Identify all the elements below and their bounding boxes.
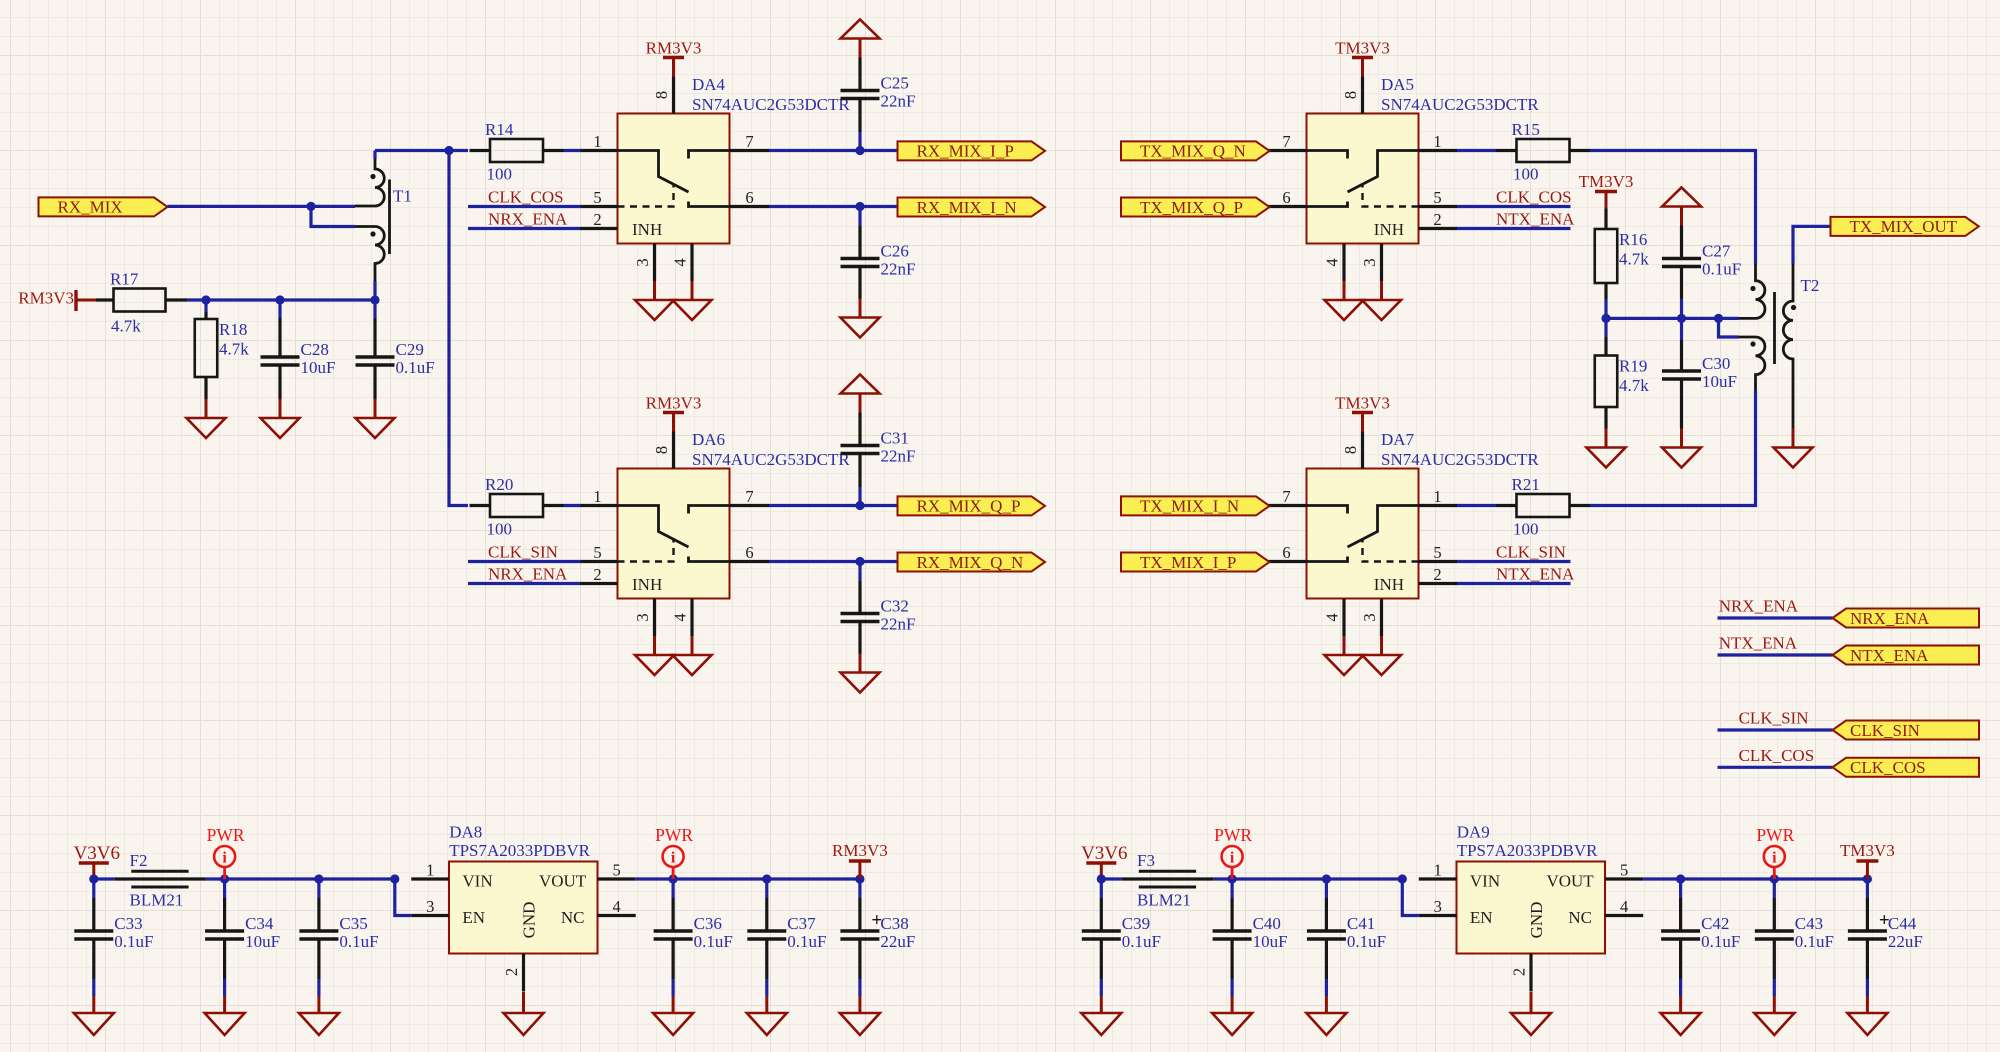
wire [1100,879,1103,898]
svg-text:C33: C33 [114,914,142,933]
wire [769,149,898,152]
svg-text:10uF: 10uF [1253,932,1288,951]
svg-text:C35: C35 [339,914,367,933]
ground [673,636,712,675]
svg-text:RX_MIX_Q_N: RX_MIX_Q_N [917,553,1024,572]
wire [317,979,320,996]
power RM3V3 [18,289,95,312]
wire [1590,151,1756,264]
svg-text:DA4: DA4 [692,75,726,94]
svg-text:5: 5 [1433,543,1441,562]
wire [395,879,412,916]
power flag PWR [207,825,245,879]
svg-text:3: 3 [1360,258,1379,266]
svg-text:PWR: PWR [1214,825,1252,845]
power flag PWR [1214,825,1252,879]
port NRX_ENA [1833,609,1980,628]
svg-text:NRX_ENA: NRX_ENA [1719,597,1799,616]
wire [468,227,581,230]
svg-text:7: 7 [745,132,753,151]
power arrow [841,375,880,413]
wire [1718,728,1833,731]
wire [636,877,860,880]
svg-text:SN74AUC2G53DCTR: SN74AUC2G53DCTR [1381,95,1539,114]
svg-text:4.7k: 4.7k [111,317,141,336]
junction [314,874,323,883]
ground [747,996,787,1035]
power TM3V3 [1335,394,1390,432]
wire [449,149,468,152]
port RX_MIX_Q_N [898,553,1046,572]
port TX_MIX_Q_N [1121,141,1270,160]
svg-text:RX_MIX_I_P: RX_MIX_I_P [917,142,1014,161]
svg-text:NC: NC [561,908,585,927]
ground [1325,281,1364,320]
svg-text:2: 2 [1433,210,1441,229]
capacitor C36 [654,914,733,951]
ground [205,996,245,1035]
wire [1866,879,1869,898]
svg-text:3: 3 [426,897,434,916]
svg-text:0.1uF: 0.1uF [1347,932,1386,951]
svg-text:TX_MIX_Q_N: TX_MIX_Q_N [1140,142,1246,161]
wire [858,207,861,227]
svg-text:5: 5 [612,861,620,880]
junction [1714,314,1723,323]
resistor R18 [195,319,250,377]
svg-text:GND: GND [1527,902,1546,939]
wire [564,149,581,152]
wire [187,298,206,301]
junction [1228,874,1237,883]
svg-text:7: 7 [1282,132,1290,151]
svg-text:i: i [222,850,227,867]
svg-text:R15: R15 [1512,120,1540,139]
svg-text:C39: C39 [1122,914,1150,933]
svg-text:3: 3 [633,258,652,266]
svg-text:C26: C26 [881,242,909,261]
wire [858,879,861,898]
svg-text:0.1uF: 0.1uF [114,932,153,951]
junction [370,295,379,304]
wire [1457,560,1571,563]
junction [89,874,98,883]
resistor R19 [1595,356,1650,408]
wire [223,879,226,898]
svg-text:NRX_ENA: NRX_ENA [1850,609,1930,628]
svg-text:0.1uF: 0.1uF [694,932,733,951]
svg-text:INH: INH [1374,575,1404,594]
svg-text:1: 1 [1434,861,1442,880]
ground [635,281,674,320]
capacitor C26 [841,242,916,279]
svg-text:C34: C34 [245,914,274,933]
junction [220,874,229,883]
svg-text:C29: C29 [396,340,424,359]
svg-text:SN74AUC2G53DCTR: SN74AUC2G53DCTR [692,95,850,114]
capacitor C35 [299,914,378,951]
svg-text:1: 1 [1433,132,1441,151]
svg-text:PWR: PWR [207,825,245,845]
svg-text:0.1uF: 0.1uF [339,932,378,951]
svg-text:VOUT: VOUT [1546,872,1594,891]
svg-text:C28: C28 [301,340,329,359]
ground [1212,996,1252,1035]
wire [1680,299,1683,318]
capacitor C27 [1662,242,1741,279]
svg-text:DA8: DA8 [449,823,482,842]
svg-text:F2: F2 [130,851,148,870]
wire [858,487,861,506]
wire [769,205,898,208]
svg-text:NTX_ENA: NTX_ENA [1719,634,1798,653]
ground [653,996,693,1035]
port TX_MIX_I_N [1121,496,1270,515]
svg-text:C25: C25 [881,74,909,93]
capacitor C43 [1755,914,1834,951]
capacitor C40 [1213,914,1288,951]
wire [671,979,674,996]
ground [841,654,880,693]
wire [375,149,449,152]
resistor R20 [470,475,564,539]
junction [1601,314,1610,323]
junction [306,202,315,211]
ground [1081,996,1121,1035]
port TX_MIX_OUT [1831,217,1979,236]
wire [1719,317,1739,320]
wire [671,879,674,898]
capacitor C32 [841,597,916,634]
power flag PWR [655,825,693,879]
ground [840,996,880,1035]
capacitor C38 [840,914,915,951]
svg-text:PWR: PWR [1756,825,1794,845]
svg-text:C32: C32 [881,597,909,616]
power TM3V3 [1579,172,1634,209]
wire [1682,317,1719,320]
ground [1587,429,1626,468]
svg-text:T2: T2 [1801,276,1820,295]
resistor R21 [1496,475,1590,539]
svg-text:C31: C31 [881,429,909,448]
svg-text:8: 8 [652,91,671,99]
regulator DA9 [1419,862,1643,992]
wire [1457,582,1571,585]
svg-text:CLK_COS: CLK_COS [1739,746,1815,765]
svg-text:EN: EN [462,908,485,927]
power arrow [1662,188,1701,226]
junction [855,874,864,883]
svg-text:F3: F3 [1137,851,1155,870]
wire [1866,979,1869,996]
capacitor C25 [841,74,916,111]
capacitor C41 [1307,914,1386,951]
ground [261,399,300,438]
ferrite bead F2 [114,851,206,910]
svg-text:BLM21: BLM21 [1137,891,1191,910]
junction [390,874,399,883]
svg-text:5: 5 [593,543,601,562]
svg-text:C40: C40 [1253,914,1281,933]
svg-text:6: 6 [745,543,753,562]
svg-text:6: 6 [1282,543,1290,562]
svg-text:TM3V3: TM3V3 [1840,841,1895,860]
wire [468,582,581,585]
svg-text:C37: C37 [787,914,816,933]
svg-text:10uF: 10uF [301,358,336,377]
svg-text:PWR: PWR [655,825,693,845]
svg-text:R21: R21 [1512,475,1540,494]
svg-text:+: + [1879,910,1890,931]
svg-text:TX_MIX_OUT: TX_MIX_OUT [1850,217,1958,236]
wire [858,979,861,996]
capacitor C42 [1661,914,1740,951]
svg-text:3: 3 [1434,897,1442,916]
wire [1606,317,1682,320]
svg-text:RM3V3: RM3V3 [18,289,74,308]
wire [1718,766,1833,769]
ground [1325,636,1364,675]
regulator DA8 [411,862,635,992]
wire [204,300,207,312]
wire [206,298,280,301]
wire [317,879,320,898]
svg-text:TM3V3: TM3V3 [1335,39,1390,58]
svg-text:DA7: DA7 [1381,430,1415,449]
junction [1676,874,1685,883]
ground [1362,636,1401,675]
wire [1680,318,1683,340]
ground [356,399,395,438]
wire [1604,299,1607,318]
ground [635,636,674,675]
svg-text:RM3V3: RM3V3 [646,39,702,58]
wire [769,560,898,563]
wire [92,979,95,996]
wire [1230,979,1233,996]
svg-text:0.1uF: 0.1uF [1122,932,1161,951]
power TM3V3 [1335,39,1390,77]
svg-text:0.1uF: 0.1uF [1701,932,1740,951]
capacitor C31 [841,429,916,466]
svg-text:7: 7 [745,487,753,506]
ground [1661,996,1701,1035]
svg-text:3: 3 [1360,613,1379,621]
port TX_MIX_Q_P [1121,198,1270,217]
junction [201,295,210,304]
capacitor C37 [747,914,826,951]
ground [1847,996,1887,1035]
port NTX_ENA [1833,646,1980,665]
svg-text:22nF: 22nF [881,260,916,279]
svg-text:RX_MIX_Q_P: RX_MIX_Q_P [917,497,1021,516]
wire [858,562,861,582]
ground [1662,429,1701,468]
svg-text:TX_MIX_I_P: TX_MIX_I_P [1140,553,1236,572]
junction [855,202,864,211]
svg-text:C41: C41 [1347,914,1375,933]
svg-text:4.7k: 4.7k [1619,250,1649,269]
junction [444,146,453,155]
svg-text:i: i [671,850,676,867]
svg-text:22uF: 22uF [1888,932,1923,951]
svg-text:2: 2 [593,210,601,229]
svg-text:8: 8 [652,446,671,454]
junction [855,501,864,510]
power RM3V3 [646,39,702,77]
svg-text:SN74AUC2G53DCTR: SN74AUC2G53DCTR [1381,450,1539,469]
ground [187,399,226,438]
svg-text:CLK_COS: CLK_COS [488,188,564,207]
svg-text:100: 100 [487,520,513,539]
svg-text:100: 100 [487,165,513,184]
ground [673,281,712,320]
svg-text:V3V6: V3V6 [74,843,120,864]
wire [373,281,376,300]
svg-text:4: 4 [1323,613,1342,621]
svg-text:C42: C42 [1701,914,1729,933]
ferrite bead F3 [1122,851,1214,910]
svg-text:1: 1 [1433,487,1441,506]
svg-text:TX_MIX_I_N: TX_MIX_I_N [1140,497,1239,516]
svg-text:i: i [1230,850,1235,867]
analog switch DA6 [580,432,769,637]
port RX_MIX [39,197,168,216]
svg-text:VIN: VIN [462,872,492,891]
svg-text:2: 2 [502,968,521,976]
svg-text:C44: C44 [1888,914,1917,933]
ground [1306,996,1346,1035]
svg-text:CLK_SIN: CLK_SIN [1850,721,1920,740]
junction [669,874,678,883]
wire [223,979,226,996]
wire [311,206,355,226]
svg-text:2: 2 [593,565,601,584]
svg-text:0.1uF: 0.1uF [396,358,435,377]
svg-text:1: 1 [593,132,601,151]
svg-text:22uF: 22uF [880,932,915,951]
svg-text:TM3V3: TM3V3 [1579,172,1634,191]
svg-text:4: 4 [1323,258,1342,266]
svg-text:R20: R20 [485,475,513,494]
junction [1677,314,1686,323]
wire [858,132,861,151]
svg-text:SN74AUC2G53DCTR: SN74AUC2G53DCTR [692,450,850,469]
wire [1773,979,1776,996]
resistor R17 [110,270,187,336]
svg-text:EN: EN [1470,908,1493,927]
wire [1457,227,1571,230]
power V3V6 [74,843,120,879]
power flag PWR [1756,825,1794,879]
svg-text:NC: NC [1568,908,1592,927]
svg-text:4: 4 [612,897,620,916]
port RX_MIX_Q_P [898,496,1046,515]
svg-text:RX_MIX_I_N: RX_MIX_I_N [917,198,1017,217]
svg-text:8: 8 [1341,446,1360,454]
transformer T2 [1739,263,1820,429]
wire [1325,879,1328,898]
wire [278,300,281,318]
svg-text:RX_MIX: RX_MIX [58,198,123,217]
svg-text:5: 5 [1620,861,1628,880]
ground [1511,992,1551,1035]
junction [1863,874,1872,883]
svg-text:i: i [1772,850,1777,867]
wire [1643,877,1867,880]
wire [1457,149,1496,152]
port TX_MIX_I_P [1121,553,1270,572]
wire [1457,205,1571,208]
junction [762,874,771,883]
svg-text:10uF: 10uF [1702,372,1737,391]
wire [280,298,375,301]
ground [1774,429,1813,468]
wire [1719,318,1739,337]
svg-text:6: 6 [1282,188,1290,207]
svg-text:DA5: DA5 [1381,75,1414,94]
svg-text:RM3V3: RM3V3 [646,394,702,413]
svg-text:5: 5 [593,188,601,207]
capacitor C44 [1848,914,1923,951]
junction [1322,874,1331,883]
svg-text:CLK_SIN: CLK_SIN [1496,543,1566,562]
wire [564,504,581,507]
svg-text:0.1uF: 0.1uF [1795,932,1834,951]
svg-text:22nF: 22nF [881,92,916,111]
junction [275,295,284,304]
power arrow [841,20,880,58]
capacitor C33 [74,914,153,951]
wire [449,151,468,506]
svg-text:C36: C36 [694,914,722,933]
svg-text:T1: T1 [393,187,412,206]
wire [206,877,395,880]
wire [1604,318,1607,337]
svg-text:3: 3 [633,613,652,621]
svg-text:4: 4 [1620,897,1628,916]
wire [1793,226,1831,263]
svg-text:CLK_SIN: CLK_SIN [1739,709,1809,728]
svg-text:VOUT: VOUT [539,872,587,891]
svg-text:DA9: DA9 [1457,823,1490,842]
wire [1101,877,1122,880]
svg-text:5: 5 [1433,188,1441,207]
svg-text:TPS7A2033PDBVR: TPS7A2033PDBVR [1457,841,1598,860]
svg-text:0.1uF: 0.1uF [787,932,826,951]
wire [94,877,115,880]
capacitor C28 [261,340,336,377]
wire [1679,879,1682,898]
svg-text:R14: R14 [485,120,514,139]
svg-text:4: 4 [671,613,690,621]
svg-text:GND: GND [520,902,539,939]
capacitor C39 [1082,914,1161,951]
port RX_MIX_I_N [898,198,1046,217]
svg-text:TX_MIX_Q_P: TX_MIX_Q_P [1140,198,1243,217]
wire [468,205,581,208]
svg-text:4: 4 [671,258,690,266]
svg-text:NRX_ENA: NRX_ENA [488,210,568,229]
svg-text:V3V6: V3V6 [1081,843,1127,864]
wire [765,979,768,996]
svg-text:1: 1 [426,861,434,880]
svg-text:1: 1 [593,487,601,506]
svg-text:NTX_ENA: NTX_ENA [1496,210,1575,229]
wire [373,300,376,318]
svg-text:C30: C30 [1702,354,1730,373]
